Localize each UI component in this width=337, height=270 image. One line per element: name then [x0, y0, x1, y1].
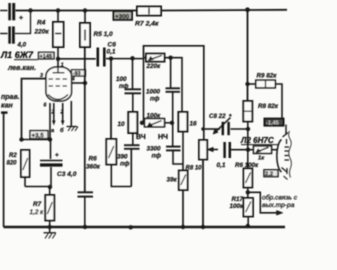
svg-text:+145: +145	[40, 54, 53, 60]
wire tone network bypass box	[144, 46, 204, 140]
svg-text:-93: -93	[73, 71, 81, 77]
svg-text:обр.связь с: обр.связь с	[262, 194, 298, 202]
junction dots bottom bus	[48, 224, 251, 230]
wire screen pin4 to R5 bottom lead	[72, 47, 88, 192]
svg-text:+300: +300	[115, 13, 130, 20]
resistor R8 82k (vertical)	[243, 101, 279, 150]
node junction C6 / R6	[109, 56, 113, 60]
trimmer capacitor C8 22	[201, 113, 250, 135]
wire cathode node	[19, 103, 52, 142]
capacitor C2 (4,0)	[0, 11, 31, 49]
svg-text:220к: 220к	[34, 29, 50, 36]
svg-text:лев.кан.: лев.кан.	[7, 65, 36, 72]
tube V1 cathode	[48, 95, 68, 100]
resistor R4 220k (anode load)	[34, 8, 64, 47]
label VCh NCh switch positions	[136, 134, 168, 141]
svg-text:пф: пф	[119, 83, 129, 90]
svg-text:1000: 1000	[146, 89, 161, 96]
svg-text:3300: 3300	[147, 146, 162, 153]
tube V2 partial envelope (cut off)	[277, 125, 292, 180]
svg-text:16: 16	[190, 121, 198, 128]
svg-text:0,1: 0,1	[107, 49, 116, 56]
svg-text:4,0: 4,0	[17, 42, 27, 49]
svg-text:820: 820	[7, 161, 18, 167]
wire anode to C6	[58, 58, 96, 60]
svg-text:пф: пф	[150, 96, 160, 103]
svg-text:R5 1,0: R5 1,0	[94, 31, 114, 38]
svg-text:Л1 6Ж7: Л1 6Ж7	[0, 50, 34, 60]
svg-text:вых.тр-ра: вых.тр-ра	[262, 202, 295, 209]
node +93 voltage box (screen)	[72, 70, 86, 77]
tube V1 anode	[53, 47, 65, 73]
svg-text:10: 10	[118, 121, 126, 128]
tube V1 pin numbers	[40, 62, 75, 115]
wire top supply bus	[16, 9, 288, 12]
svg-text:R2: R2	[9, 153, 17, 159]
wire left edge input (right channel)	[1, 113, 8, 227]
resistor R6 360k	[86, 59, 131, 187]
svg-text:2,2: 2,2	[265, 172, 273, 178]
svg-text:R6: R6	[89, 156, 98, 163]
potentiometer 220k (treble)	[144, 54, 183, 112]
wire grid of V1 to the left	[22, 79, 47, 140]
svg-text:100к: 100к	[230, 203, 245, 210]
resistor 39k	[167, 132, 188, 228]
svg-text:+3,5: +3,5	[32, 132, 45, 139]
svg-text:С8 22: С8 22	[209, 113, 226, 120]
resistor 16	[178, 112, 197, 132]
svg-text:360к: 360к	[86, 164, 101, 171]
node junction C1/C2 to bus	[28, 8, 32, 12]
svg-text:*: *	[229, 114, 232, 121]
svg-text:1,2 к: 1,2 к	[30, 209, 45, 216]
svg-text:R7: R7	[33, 201, 42, 208]
wire cathode network bottom	[25, 185, 52, 189]
svg-text:R7 2,4к: R7 2,4к	[135, 21, 159, 28]
svg-text:100: 100	[116, 76, 127, 83]
node +300 voltage box	[114, 11, 133, 20]
svg-text:Л2 6Н7С: Л2 6Н7С	[240, 136, 274, 145]
resistor R17 100k	[230, 196, 254, 226]
resistor R5 1,0 (screen feed)	[80, 8, 113, 47]
capacitor screen bypass	[78, 192, 94, 227]
svg-text:390: 390	[117, 154, 128, 161]
capacitor C3 4,0 (cathode bypass, electrolytic)	[40, 140, 77, 187]
capacitor C6 0,1 (coupling)	[98, 42, 144, 67]
svg-text:6: 6	[44, 103, 47, 109]
svg-text:100к: 100к	[147, 112, 162, 119]
svg-text:б: б	[60, 127, 64, 134]
svg-text:220к: 220к	[146, 63, 162, 70]
potentiometer (vertical, level)	[199, 140, 218, 227]
node -1,45 voltage box (V2 grid)	[265, 119, 284, 127]
svg-text:1к: 1к	[258, 156, 265, 162]
capacitor 0,1 (coupling to V2)	[217, 142, 251, 169]
svg-text:прав.: прав.	[1, 94, 20, 101]
resistor R9 82k (horizontal)	[245, 73, 282, 119]
svg-text:пф: пф	[152, 153, 162, 160]
wire feedback tap with arrow	[248, 192, 283, 215]
node junction 100pf tap	[130, 56, 134, 60]
svg-text:R17: R17	[232, 196, 244, 203]
wire ground bus bottom	[4, 226, 285, 229]
svg-text:+: +	[19, 15, 23, 22]
svg-text:39к: 39к	[167, 177, 178, 184]
label tube V1	[0, 50, 38, 60]
heater pin a with arrow	[51, 103, 56, 134]
svg-text:R9 82к: R9 82к	[257, 73, 278, 80]
node +2,2 voltage box	[264, 170, 278, 178]
label feedback from output transformer	[262, 194, 298, 210]
node junction top-right	[245, 7, 250, 12]
resistor R2 820 (grid leak)	[7, 150, 30, 187]
capacitor C1 (electrolytic 4,0 +)	[0, 3, 23, 22]
svg-text:НЧ: НЧ	[158, 134, 168, 141]
resistor 10	[118, 93, 138, 133]
tube V1 envelope	[46, 67, 72, 101]
svg-text:4: 4	[71, 77, 75, 83]
svg-text:ВЧ: ВЧ	[136, 134, 146, 141]
capacitor 100pf	[116, 58, 141, 93]
svg-text:1: 1	[61, 62, 64, 68]
node +3,5 voltage box	[30, 131, 48, 140]
svg-text:+: +	[55, 152, 59, 159]
svg-text:С6: С6	[108, 42, 117, 49]
svg-text:С3 4,0: С3 4,0	[57, 171, 77, 178]
svg-text:кан: кан	[1, 103, 14, 110]
ground (tube shell)	[67, 101, 79, 131]
svg-text:R4: R4	[37, 20, 46, 27]
heater pin b with arrow	[60, 103, 65, 134]
capacitor 1000pf	[146, 58, 180, 123]
potentiometer 1k (V2 input)	[248, 146, 278, 162]
label right channel	[1, 94, 20, 110]
resistor R16 100k (vertical)	[244, 150, 253, 198]
label tube V2	[240, 136, 279, 145]
wire right column from top bus	[247, 10, 249, 101]
tube V1 grids (dashed)	[49, 79, 68, 86]
node +145 voltage box	[39, 52, 55, 60]
capacitor 3300pf	[147, 123, 184, 164]
resistor R7 1,2k (cathode)	[30, 187, 55, 227]
potentiometer 100k (mid)	[140, 58, 174, 127]
svg-text:пф: пф	[120, 161, 130, 168]
svg-text:-1,45: -1,45	[266, 121, 279, 127]
svg-text:R8 82к: R8 82к	[258, 103, 279, 110]
resistor R7 2,4k (decoupling)	[135, 7, 161, 28]
ground below R7	[44, 227, 57, 239]
capacitor 390pf	[117, 133, 140, 187]
svg-text:0,1: 0,1	[217, 162, 226, 169]
